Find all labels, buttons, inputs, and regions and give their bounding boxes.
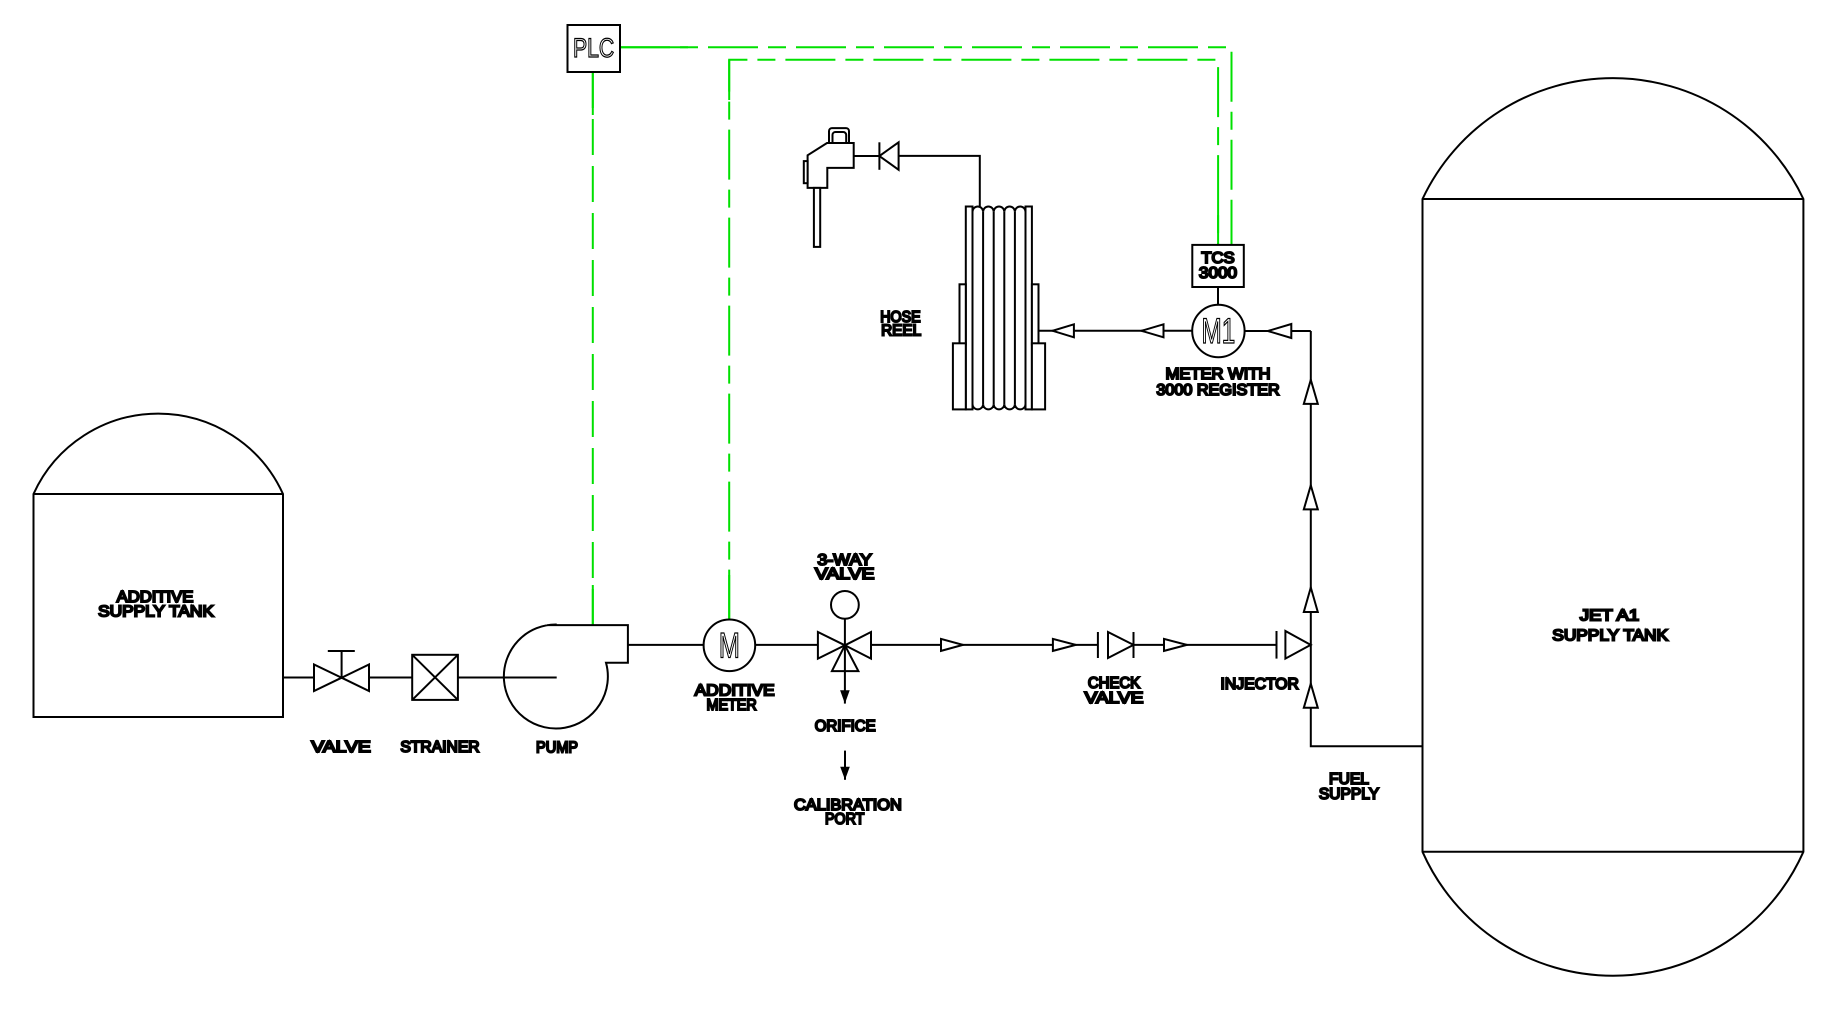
orifice arrow (844, 671, 846, 704)
fuel nozzle (829, 128, 849, 143)
svg-text:M1: M1 (1202, 312, 1236, 351)
svg-text:VALVE: VALVE (815, 566, 875, 583)
svg-text:SUPPLY TANK: SUPPLY TANK (1552, 627, 1668, 644)
wire valve to strainer (369, 677, 412, 679)
svg-text:METER WITH: METER WITH (1166, 366, 1271, 383)
flow arrow 4 (left) (1268, 324, 1291, 338)
jet A1 supply tank (1423, 78, 1804, 976)
flow arrow 1 (941, 639, 963, 651)
wire check valve to injector (1134, 644, 1277, 646)
hose reel (966, 207, 973, 410)
svg-text:SUPPLY TANK: SUPPLY TANK (98, 603, 214, 620)
wire tank to valve (283, 677, 314, 679)
svg-text:3000: 3000 (1199, 265, 1237, 282)
svg-text:VALVE: VALVE (1085, 690, 1144, 707)
wire strainer to pump (458, 677, 557, 679)
wire TCS3000 to M1 (1217, 287, 1219, 305)
wire riser to meter M1 (1245, 330, 1311, 332)
riser up arrow 3 (1304, 588, 1318, 613)
svg-text:SUPPLY: SUPPLY (1319, 786, 1380, 803)
signal wire PLC to pump (green dashed) (592, 72, 594, 625)
svg-text:ORIFICE: ORIFICE (815, 718, 876, 735)
svg-text:METER: METER (707, 697, 757, 714)
signal wire PLC to TCS3000 (green dash-dot) (620, 47, 1232, 245)
flow arrow 6 (left) (1053, 324, 1074, 337)
meter M1 (1192, 305, 1244, 357)
wire meter to 3-way valve (755, 644, 818, 646)
nozzle valve (878, 142, 880, 170)
svg-text:VALVE: VALVE (311, 739, 371, 756)
flow arrow 5 (left) (1142, 324, 1164, 337)
additive meter M (704, 620, 756, 672)
wire M1 to hose reel (1039, 330, 1193, 332)
flow arrow 2 (1053, 639, 1076, 651)
svg-text:PORT: PORT (825, 811, 865, 828)
additive supply tank (34, 414, 284, 717)
check valve (1097, 632, 1099, 658)
hose wire reel to nozzle valve (899, 156, 980, 207)
fuel supply riser (1311, 331, 1423, 746)
PLC controller box (568, 25, 621, 72)
valve V1 (gate valve) (328, 651, 355, 678)
svg-text:PLC: PLC (573, 33, 614, 63)
3-way valve (818, 632, 845, 659)
wire 3-way valve to check valve (871, 644, 1098, 646)
strainer (412, 655, 458, 700)
svg-text:STRAINER: STRAINER (400, 739, 479, 756)
flow arrow 3 (1164, 639, 1187, 651)
signal wire additive meter to TCS3000 (green dash-dot) (729, 60, 1218, 620)
calibration port arrow (844, 751, 846, 780)
svg-text:M: M (719, 626, 740, 665)
riser up arrow 2 (1304, 485, 1318, 509)
pump (centrifugal) (504, 624, 628, 728)
hose reel coil (973, 206, 1026, 211)
riser up arrow 4 (1304, 684, 1318, 708)
injector (1276, 631, 1278, 659)
svg-text:JET A1: JET A1 (1580, 607, 1640, 624)
svg-text:INJECTOR: INJECTOR (1221, 676, 1299, 693)
svg-text:PUMP: PUMP (536, 739, 578, 756)
riser up arrow 1 (1304, 380, 1318, 404)
svg-text:REEL: REEL (881, 323, 921, 340)
svg-text:3000 REGISTER: 3000 REGISTER (1156, 382, 1279, 399)
TCS 3000 register box (1192, 245, 1244, 287)
wire pump to additive meter (628, 644, 704, 646)
